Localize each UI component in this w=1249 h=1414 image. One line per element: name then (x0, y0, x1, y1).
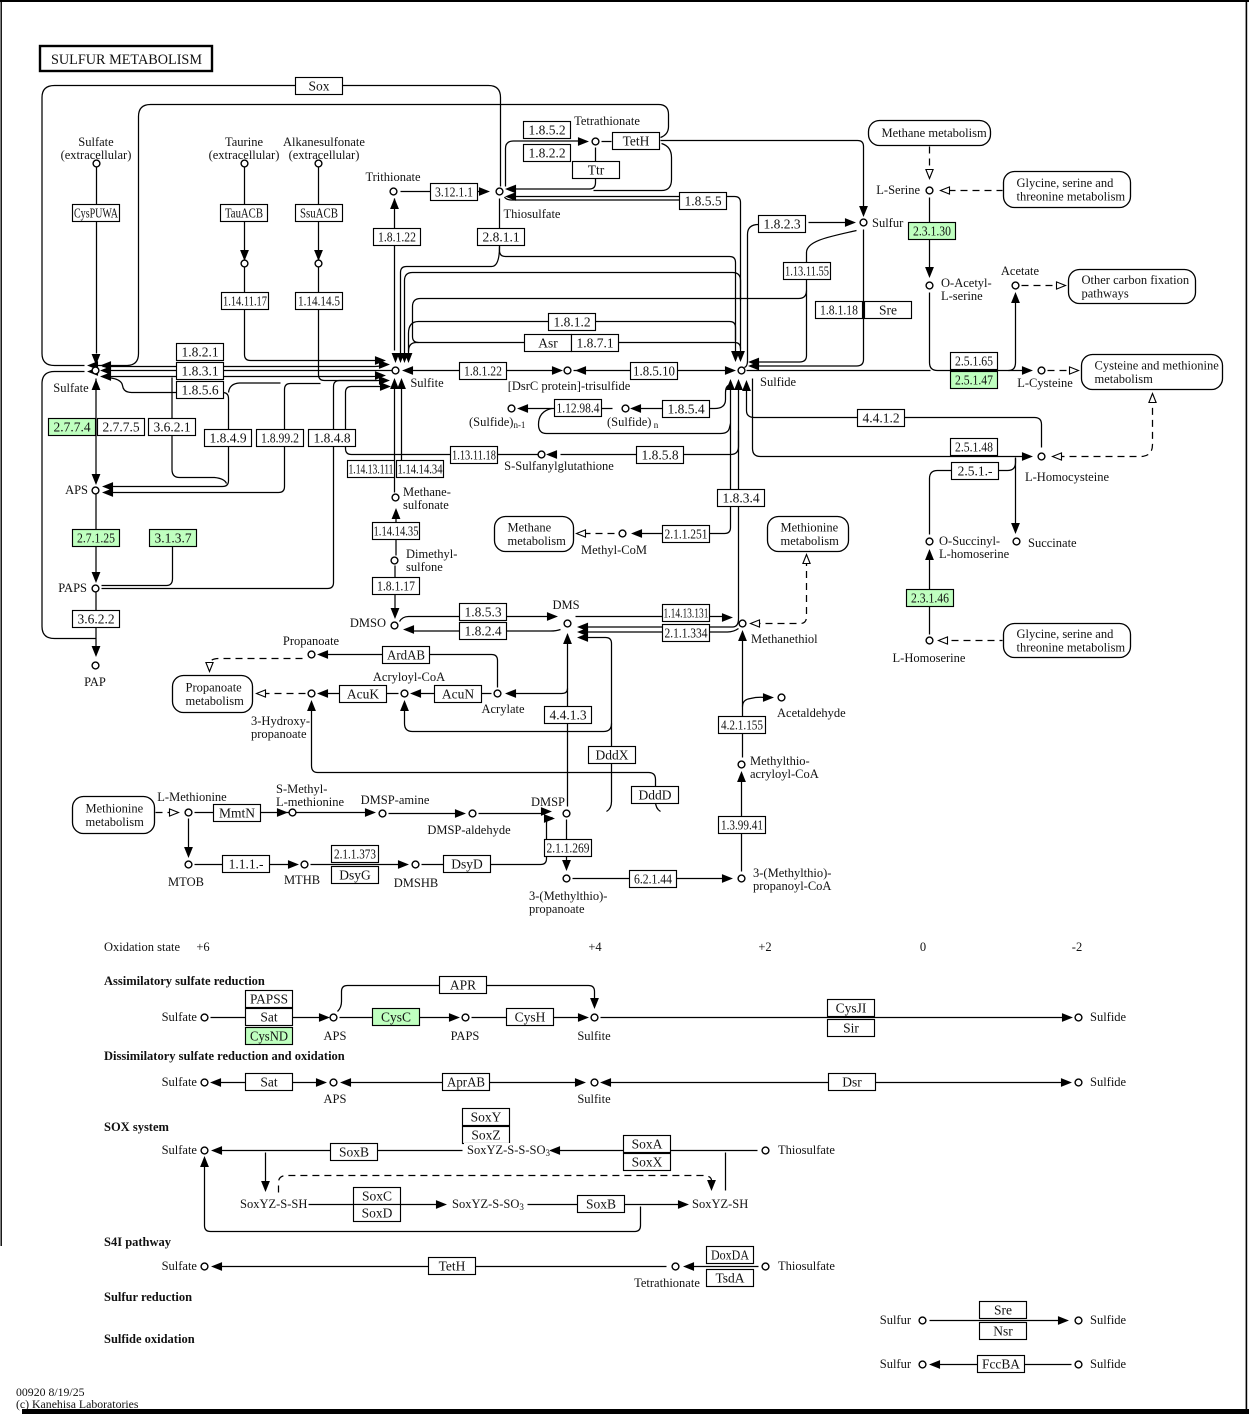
wire SOX return loop (205, 1161, 641, 1232)
image border bottom bar (22, 1409, 1249, 1414)
arrow into methanethiol left (723, 614, 732, 621)
svg-text:1.14.14.5: 1.14.14.5 (298, 294, 340, 309)
open arrow into L-methionine (170, 809, 179, 816)
wire sulfate to sulfite lower line (103, 375, 379, 378)
image border right (1246, 0, 1248, 1414)
svg-text:Sulfite: Sulfite (410, 376, 444, 390)
open arrow into methionine metabolism box (803, 555, 810, 564)
enzyme TetH (613, 133, 660, 150)
wire sulfide to (sulfide)n via 1.8.5.4 (633, 385, 731, 409)
enzyme 1.14.14.34 (397, 461, 444, 478)
arrow into thiosulfate right 1 (507, 185, 516, 192)
enzyme 4.2.1.155 (719, 717, 766, 734)
compound methanethiol (739, 620, 746, 627)
arrow into sulfite right (404, 367, 413, 374)
svg-text:L-methionine: L-methionine (276, 795, 344, 809)
enzyme CysC (373, 1009, 420, 1026)
enzyme SoxX (624, 1154, 671, 1171)
svg-text:PAPSS: PAPSS (250, 992, 288, 1007)
wire to succinate (1015, 459, 1017, 528)
arrow into sulfide left (726, 367, 735, 374)
wire alkanesulfonate(extracellular) to alkanesulfonate (318, 168, 320, 251)
svg-text:Sulfur: Sulfur (880, 1357, 912, 1371)
label 3-(Methylthio)propanoate (529, 889, 607, 916)
svg-text:Methionine: Methionine (86, 802, 144, 816)
wire SoxAX vertical (725, 1153, 727, 1191)
label Alkanesulfonate (extracellular) (283, 135, 365, 162)
wire tetrathionate to TetH (602, 141, 612, 143)
enzyme SoxC (354, 1188, 401, 1205)
svg-text:Glycine, serine and: Glycine, serine and (1017, 627, 1115, 641)
enzyme 3.6.2.2 (73, 611, 120, 628)
svg-text:SoxY: SoxY (471, 1110, 502, 1125)
svg-text:[DsrC protein]-trisulfide: [DsrC protein]-trisulfide (508, 379, 631, 393)
wire taurine(extracellular) to taurine (244, 168, 246, 251)
enzyme Sox (296, 78, 343, 95)
svg-text:2.5.1.48: 2.5.1.48 (955, 440, 993, 455)
compound PAPS assim (462, 1014, 469, 1021)
svg-text:1.8.1.17: 1.8.1.17 (377, 579, 415, 594)
svg-text:SoxD: SoxD (362, 1206, 393, 1221)
arrow into sulfur left (846, 219, 855, 226)
wire sulfide to 1.8.2.3 (745, 225, 759, 368)
open arrow into L-homoserine (939, 637, 948, 644)
svg-text:SOX system: SOX system (104, 1120, 170, 1134)
wire sulfide down to 2.5.1.48 row (753, 379, 1027, 457)
arrows dissim row1 (212, 1079, 611, 1086)
wire 1.8.4.9 to 1.8.99.2 bridge (229, 383, 281, 393)
wire methanesulfonate to sulfite (395, 382, 402, 493)
svg-text:Sulfide: Sulfide (1090, 1010, 1127, 1024)
arrow into (sulfide)n right (632, 405, 641, 412)
svg-text:Trithionate: Trithionate (365, 170, 421, 184)
enzyme 4.4.1.2 (858, 410, 905, 427)
wire sulfate to sulfite via 1.8.3.1 (103, 370, 392, 372)
wire thiosulfate to 1.8.5.5 lower line (505, 197, 680, 200)
svg-text:3.1.3.7: 3.1.3.7 (154, 531, 191, 546)
svg-text:Propanoate: Propanoate (186, 681, 243, 695)
compound methyl-CoM (619, 530, 626, 537)
enzyme 3.6.2.1 (149, 419, 196, 436)
svg-text:(c) Kanehisa Laboratories: (c) Kanehisa Laboratories (16, 1397, 139, 1411)
svg-text:SsuACB: SsuACB (300, 206, 338, 221)
arrow up into acryloyl-CoA (401, 702, 408, 711)
arrow down into APS (92, 475, 99, 484)
wire dimethylsulfone to DMSO via 1.8.1.17 (394, 566, 396, 614)
svg-text:Methanethiol: Methanethiol (751, 632, 818, 646)
arrow up into methylthioacryloyl-CoA (738, 773, 745, 782)
enzyme FccBA (978, 1356, 1025, 1373)
svg-text:Sulfate: Sulfate (162, 1259, 198, 1273)
image border top (0, 0, 1249, 2)
svg-text:DsyG: DsyG (339, 868, 371, 883)
enzyme 2.3.1.46 (907, 590, 954, 607)
arrows SOX row (213, 1147, 560, 1154)
wire sulfite to sulfide upper route (405, 273, 741, 354)
compound trithionate (390, 188, 397, 195)
svg-text:SoxA: SoxA (632, 1137, 663, 1152)
arrow down into PAP (92, 647, 99, 656)
wire polysulfide loop to sulfide (539, 409, 731, 434)
svg-text:Thiosulfate: Thiosulfate (778, 1143, 835, 1157)
svg-text:1.8.2.3: 1.8.2.3 (763, 217, 800, 232)
svg-text:1.8.5.10: 1.8.5.10 (633, 364, 675, 379)
wire sulfate to APS (95, 379, 97, 481)
arrow up into SOX sulfate (201, 1158, 208, 1167)
compound sulfide assim (1075, 1014, 1082, 1021)
svg-text:Sat: Sat (260, 1075, 278, 1090)
svg-text:2.1.1.251: 2.1.1.251 (665, 527, 708, 542)
enzyme 1.8.99.2 (257, 430, 304, 447)
arrow down into SoxYZ-S-SH (262, 1182, 269, 1191)
label O-Acetyl-L-serine (941, 276, 992, 303)
wire dissimilatory sulfate APS via Sat (215, 1082, 581, 1084)
wire DsrC trisulfide to sulfide via 1.8.5.10 (574, 370, 732, 372)
transporter TauACB (221, 205, 268, 222)
svg-text:S-Methyl-: S-Methyl- (276, 782, 327, 796)
svg-text:(extracellular): (extracellular) (61, 148, 132, 162)
wire L-homoserine via 2.3.1.46 to O-succinylhomoserine (929, 554, 931, 635)
arrow into sulfate right (102, 362, 111, 380)
arrow into sulfide assim (1063, 1014, 1072, 1021)
compound L-serine (926, 187, 933, 194)
svg-text:TauACB: TauACB (225, 206, 263, 221)
svg-text:1.12.98.4: 1.12.98.4 (557, 401, 600, 416)
wire sulfur via 1.13.11.55 to sulfide (754, 231, 857, 363)
wire DMSP via DddD to 3-hydroxypropanoate (312, 705, 661, 812)
label Sulfate (extracellular) (61, 135, 132, 162)
svg-text:metabolism: metabolism (186, 694, 245, 708)
svg-text:1.8.1.22: 1.8.1.22 (378, 230, 416, 245)
svg-text:4.4.1.2: 4.4.1.2 (862, 411, 899, 426)
enzyme 1.1.1.- (223, 856, 270, 873)
pathway link Methionine metabolism (left) (73, 797, 155, 834)
enzyme 1.8.2.1 (177, 344, 224, 361)
svg-text:ArdAB: ArdAB (387, 648, 425, 663)
svg-text:1.8.2.2: 1.8.2.2 (528, 146, 565, 161)
wire assimilatory sulfite to sulfide via CysJI Sir (601, 1017, 1068, 1019)
compound sulfur (reduction) (919, 1317, 926, 1324)
pathway link Glycine serine threonine metabolism (lower) (1004, 624, 1131, 658)
svg-text:SoxYZ-S-S-SO3: SoxYZ-S-S-SO3 (467, 1143, 551, 1158)
wire 3-hydroxypropanoate dashed link (263, 693, 306, 695)
wire DMSO to DMS via 1.8.5.3 (400, 617, 549, 622)
svg-text:2.5.1.47: 2.5.1.47 (955, 373, 993, 388)
svg-text:DMSP-aldehyde: DMSP-aldehyde (427, 823, 511, 837)
compound sulfur (860, 219, 867, 226)
wire polysulfide chain via 1.12.98.4 (520, 408, 613, 410)
enzyme 1.12.98.4 (555, 400, 602, 417)
wire methanethiol dashed to methionine metabolism (754, 561, 807, 624)
wire TetH loop: TetH box to sulfate (91, 105, 669, 366)
svg-text:Succinate: Succinate (1028, 536, 1077, 550)
compound sulfide (oxidation) (1075, 1361, 1082, 1368)
svg-text:Sir: Sir (843, 1021, 859, 1036)
compound sulfate S4I (201, 1263, 208, 1270)
svg-text:Sulfite: Sulfite (577, 1092, 611, 1106)
svg-text:SoxB: SoxB (339, 1145, 369, 1160)
svg-text:Sulfur: Sulfur (872, 216, 904, 230)
arrow into DsrC trisulfide right (577, 367, 586, 374)
svg-text:Sre: Sre (994, 1303, 1012, 1318)
enzyme ArdAB (383, 647, 430, 664)
wire Sox loop: thiosulfate to Sox to sulfate (42, 86, 501, 366)
enzyme 3.1.3.7 (150, 530, 197, 547)
arrow into DMSO right (405, 626, 414, 633)
svg-text:DsyD: DsyD (451, 857, 483, 872)
compound sulfide (738, 367, 745, 374)
compound dimethylsulfone (391, 557, 398, 564)
svg-text:Propanoate: Propanoate (283, 634, 340, 648)
enzyme TsdA (707, 1270, 754, 1287)
enzyme 1.8.1.17 (373, 578, 420, 595)
svg-text:3.6.2.1: 3.6.2.1 (153, 420, 190, 435)
svg-text:1.8.7.1: 1.8.7.1 (576, 336, 613, 351)
compound acetaldehyde (778, 694, 785, 701)
enzyme DddX (589, 747, 636, 764)
wire DddX branch to acryloyl-CoA (405, 706, 612, 732)
svg-text:Sulfate: Sulfate (162, 1075, 198, 1089)
label SoxYZ-S-S-SO3 (464, 1143, 551, 1158)
image border left (1, 0, 2, 1246)
label S-Methyl-L-methionine (276, 782, 344, 809)
enzyme CysH (507, 1009, 554, 1026)
enzyme 2.7.1.25 (73, 530, 120, 547)
svg-text:Sat: Sat (260, 1010, 278, 1025)
open arrow into methane metabolism box (577, 530, 586, 537)
enzyme 1.8.2.3 (759, 216, 806, 233)
arrow into acryloyl-CoA right (412, 690, 421, 697)
svg-text:Sulfide oxidation: Sulfide oxidation (104, 1332, 195, 1346)
enzyme 1.14.11.17 (222, 293, 269, 310)
enzyme 2.5.1.47 (951, 372, 998, 389)
svg-text:Glycine, serine and: Glycine, serine and (1017, 176, 1115, 190)
compound MTHB (301, 861, 308, 868)
svg-text:CysND: CysND (250, 1029, 288, 1044)
svg-text:APS: APS (324, 1092, 347, 1106)
svg-text:Acrylate: Acrylate (481, 702, 524, 716)
arrow into DMS right 1 (579, 623, 588, 630)
svg-text:DMSHB: DMSHB (394, 876, 438, 890)
compound L-homoserine (926, 637, 933, 644)
svg-text:Sox: Sox (308, 79, 329, 94)
enzyme 4.4.1.3 (545, 707, 592, 724)
svg-text:1.8.5.8: 1.8.5.8 (641, 448, 678, 463)
enzyme SoxB (SoxYZ) (578, 1196, 625, 1213)
wire L-methionine row to DMSP (195, 813, 545, 814)
compound methylthioacryloyl-CoA (738, 761, 745, 768)
wire SOX sulfate line (216, 1150, 758, 1152)
open arrow into cysteine metabolism box (1070, 367, 1079, 374)
compound (sulfide)n-1 (508, 405, 515, 412)
arrow into acetaldehyde (764, 694, 773, 701)
svg-text:Methane metabolism: Methane metabolism (882, 126, 987, 140)
wire dimethylsulfone via 1.14.14.35 to methanesulfonate (395, 513, 397, 556)
svg-text:Oxidation state: Oxidation state (104, 940, 180, 954)
arrow into sulfate from Sox loop (89, 362, 98, 369)
wire sulfide oxidation row (934, 1364, 1072, 1366)
svg-text:Sulfide: Sulfide (1090, 1313, 1127, 1327)
wire sulfite to APS via 1.8.99.2 (105, 384, 321, 493)
compound DMSP (563, 810, 570, 817)
arrow into sulfur fccba (931, 1361, 940, 1368)
wire sulfate to APS via 3.6.2.1 (172, 378, 227, 484)
svg-text:CysH: CysH (515, 1010, 546, 1025)
arrow into sulfide right 2 (750, 362, 759, 369)
enzyme 1.14.13.131 (663, 605, 710, 622)
wire 1.8.2.3 to sulfur (809, 222, 851, 224)
wire main line branch down to SoxYZ-S-SH (265, 1153, 267, 1185)
svg-text:Dimethyl-: Dimethyl- (406, 547, 457, 561)
svg-text:SoxB: SoxB (586, 1197, 616, 1212)
svg-text:Sulfide: Sulfide (760, 375, 797, 389)
svg-text:Acetaldehyde: Acetaldehyde (777, 706, 846, 720)
wire O-acetylserine via 2.5.1.47 to L-cysteine (930, 293, 1027, 371)
svg-text:CysC: CysC (381, 1010, 411, 1025)
wire S4I tetrathionate to sulfate via TetH (216, 1266, 667, 1268)
compound L-methionine (185, 809, 192, 816)
pathway link Methane metabolism (top) (869, 121, 991, 146)
svg-text:2.3.1.30: 2.3.1.30 (913, 224, 951, 239)
label O-Succinyl-L-homoserine (939, 534, 1010, 561)
svg-text:Nsr: Nsr (993, 1324, 1013, 1339)
svg-text:Alkanesulfonate: Alkanesulfonate (283, 135, 365, 149)
svg-text:1.8.4.9: 1.8.4.9 (209, 431, 246, 446)
open arrow down into propanoate metabolism (206, 663, 213, 672)
arrow into acrylate right (507, 690, 516, 697)
arrow into thiosulfate left (480, 188, 489, 195)
wire L-methionine to MTOB (188, 819, 190, 853)
arrow up into DMS bottom (564, 635, 571, 644)
arrow into sulfide sre (1059, 1317, 1068, 1324)
compound DMSO (391, 622, 398, 629)
compound (sulfide)n (622, 405, 629, 412)
svg-text:pathways: pathways (1082, 286, 1129, 300)
arrow down into sulfate (92, 355, 99, 364)
svg-text:DddD: DddD (639, 788, 672, 803)
svg-text:Sre: Sre (879, 303, 897, 318)
enzyme 1.14.14.5 (296, 293, 343, 310)
compound sulfate dissim (201, 1079, 208, 1086)
svg-text:FccBA: FccBA (982, 1357, 1020, 1372)
svg-text:2.5.1.-: 2.5.1.- (958, 464, 993, 479)
arrows into sulfite top (392, 354, 411, 362)
arrow up into methanethiol (739, 632, 746, 641)
wire APS to PAPS (95, 495, 97, 578)
arrow into sulfide right 1 (750, 358, 759, 365)
transporter CysPUWA (73, 205, 120, 222)
svg-text:1.8.1.22: 1.8.1.22 (464, 364, 502, 379)
wire PAPS via 1.8.4.8 to sulfite (102, 381, 378, 589)
svg-text:0: 0 (920, 940, 926, 954)
open arrow into propanoate metabolism right (257, 690, 266, 697)
enzyme 1.8.1.22 upper (374, 229, 421, 246)
compound thiosulfate SOX (762, 1147, 769, 1154)
enzyme Dsr (829, 1074, 876, 1091)
wire methanethiol via 2.1.1.334 to DMS (581, 629, 739, 633)
svg-text:MTHB: MTHB (284, 873, 320, 887)
pathway link Propanoate metabolism (173, 676, 253, 713)
enzyme AcuN (435, 686, 482, 703)
svg-text:1.14.13.131: 1.14.13.131 (664, 606, 709, 621)
compound sulfate assim (201, 1014, 208, 1021)
svg-text:1.8.2.1: 1.8.2.1 (181, 345, 218, 360)
arrow into DMS right 3 (579, 634, 588, 641)
svg-text:2.3.1.46: 2.3.1.46 (911, 591, 949, 606)
enzyme AcuK (340, 686, 387, 703)
compound sulfite dissim (591, 1079, 598, 1086)
wire methylthioacryloyl-CoA via 4.2.1.155 to methanethiol (742, 635, 744, 758)
wire S-sulfanylglutathione to sulfide via 1.8.5.8 (561, 431, 739, 455)
svg-text:threonine metabolism: threonine metabolism (1017, 641, 1126, 655)
compound alkanesulfonate (315, 260, 322, 267)
compound APS assim (330, 1014, 337, 1021)
arrow into 3-methylthiopropanoyl-CoA (723, 875, 732, 882)
compound S-methyl-L-methionine (289, 809, 296, 816)
compound sulfide dissim (1075, 1079, 1082, 1086)
svg-text:L-serine: L-serine (941, 289, 983, 303)
compound propanoate (308, 651, 315, 658)
compound DMSP-aldehyde (469, 810, 476, 817)
wire DMSP via 4.4.1.3 to DMS (567, 635, 569, 807)
enzyme 2.5.1.- (952, 463, 999, 480)
arrow up into O-succinylhomoserine (926, 551, 933, 560)
svg-text:Sulfur: Sulfur (880, 1313, 912, 1327)
compound taurine extracellular (241, 160, 248, 167)
svg-text:1.13.11.18: 1.13.11.18 (452, 448, 496, 463)
compound sulfate extracellular (93, 160, 100, 167)
svg-text:metabolism: metabolism (781, 534, 840, 548)
svg-text:1.8.3.4: 1.8.3.4 (722, 491, 759, 506)
wire sulfur down via Sre to sulfide (754, 230, 864, 367)
svg-text:Methane: Methane (508, 521, 552, 535)
svg-text:Tetrathionate: Tetrathionate (574, 114, 640, 128)
wire sulfur reduction row (930, 1320, 1064, 1322)
svg-text:Other carbon fixation: Other carbon fixation (1082, 273, 1190, 287)
svg-text:L-Cysteine: L-Cysteine (1017, 376, 1073, 390)
arrow into tetrathionate left (579, 138, 588, 145)
enzyme 1.8.2.4 (460, 623, 507, 640)
wire methionine metabolism to L-methionine (156, 812, 171, 814)
arrow into MTHB (289, 861, 298, 868)
svg-text:L-Serine: L-Serine (876, 183, 920, 197)
enzyme DsyD (444, 856, 491, 873)
enzyme 2.1.1.269 (545, 840, 592, 857)
wire L-homocysteine dashed link (1058, 401, 1153, 457)
compound sulfur (oxidation) (919, 1361, 926, 1368)
enzyme 1.8.5.2 (524, 122, 571, 139)
wire sulfite to sulfide via Asr 1.8.7.1 (409, 343, 741, 352)
compound PAPS (92, 585, 99, 592)
compound 3-methylthiopropanoate (563, 875, 570, 882)
svg-text:1.13.11.55: 1.13.11.55 (785, 264, 829, 279)
compound thiosulfate S4I (762, 1263, 769, 1270)
svg-text:L-homoserine: L-homoserine (939, 547, 1010, 561)
svg-text:TetH: TetH (623, 134, 650, 149)
enzyme 1.8.3.4 (718, 490, 765, 507)
svg-text:Methyl-CoM: Methyl-CoM (581, 543, 647, 557)
svg-text:1.8.2.4: 1.8.2.4 (464, 624, 501, 639)
wire assimilatory APS to PAPS via CysC (340, 1017, 455, 1019)
compound taurine (241, 260, 248, 267)
arrow into SoxYZ-S-SO3 (437, 1201, 446, 1208)
arrow up into sulfide from 4.4.1.2 (743, 382, 750, 391)
wire PAPS to PAP via 3.6.2.2 (95, 593, 97, 652)
label Methanesulfonate (403, 485, 451, 512)
enzyme 1.8.5.5 (680, 193, 727, 210)
svg-text:DddX: DddX (596, 748, 629, 763)
arrows into sulfide top (732, 352, 744, 361)
